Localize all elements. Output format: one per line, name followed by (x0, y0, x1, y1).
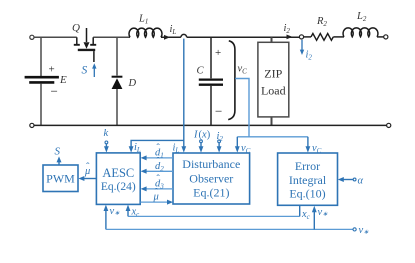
bracket vC (228, 41, 235, 120)
ZIP load box (258, 42, 289, 117)
wire R2 to L2 (333, 36, 344, 38)
node alpha terminal (353, 178, 356, 181)
svg-text:D: D (128, 78, 137, 89)
svg-text:−: − (215, 104, 222, 119)
wire ZIP top stub (271, 37, 273, 42)
svg-text:I: I (193, 130, 198, 141)
block PWM (43, 165, 78, 192)
node i2 terminal (218, 140, 221, 143)
svg-text:α: α (358, 176, 364, 187)
arrow S out of PWM (58, 160, 60, 165)
svg-text:+: + (49, 64, 55, 76)
svg-text:Q: Q (72, 22, 80, 34)
svg-text:ˆ: ˆ (86, 162, 90, 173)
block AESC (96, 153, 140, 205)
svg-text:ˆ: ˆ (156, 157, 160, 168)
svg-text:k: k (104, 128, 109, 139)
svg-text:AESC: AESC (102, 166, 134, 180)
transistor Q leads (76, 37, 78, 44)
inductor L2 (343, 28, 378, 37)
inductor L1 (129, 28, 162, 37)
svg-text:E: E (59, 74, 67, 86)
arrow i2 tap (blue) (301, 40, 303, 52)
wire xc from Error Integral (299, 206, 301, 217)
wire vC horizontal (237, 136, 308, 138)
svg-text:C: C (197, 66, 205, 77)
node right top terminal (384, 35, 388, 39)
wire top rail to i2 node (187, 36, 300, 38)
wire top rail left segment (34, 36, 77, 38)
wire L2 to right terminal (377, 36, 384, 38)
node: left top terminal (30, 35, 34, 39)
wire v-star horizontal (106, 228, 353, 230)
block Error Integral (278, 153, 338, 205)
svg-text:ˆ: ˆ (156, 174, 160, 185)
wire alpha into Error Integral (341, 179, 353, 181)
wire vC tap from bracket (blue) (235, 79, 249, 137)
wire d2-hat (144, 170, 173, 172)
arrow i2 into Observer (218, 143, 220, 150)
wire to R2 (304, 36, 311, 38)
node bottom left terminal (30, 123, 34, 127)
battery E plates (25, 76, 59, 79)
svg-text:Load: Load (261, 84, 286, 98)
wire ZIP bottom stub (271, 117, 273, 126)
wire mu-hat to Observer (140, 201, 170, 203)
svg-text:S: S (82, 65, 88, 77)
wire xc horizontal (128, 215, 300, 217)
transistor Q channel bar (78, 49, 95, 51)
arrow k into AESC (105, 144, 107, 150)
diode D (112, 76, 123, 78)
arrow iL into AESC (129, 146, 134, 152)
wire vC drop to Observer (236, 137, 238, 150)
wire capacitor top (210, 37, 212, 78)
svg-text:ZIP: ZIP (264, 67, 282, 81)
svg-text:+: + (215, 47, 221, 59)
wire v-star into AESC (105, 208, 107, 230)
svg-text:−: − (51, 84, 58, 99)
wire diode top (116, 37, 118, 75)
svg-text:ˆ: ˆ (156, 143, 160, 154)
svg-text:Disturbance: Disturbance (182, 157, 240, 171)
transistor Q gate lead (93, 51, 95, 62)
node v-star terminal (353, 228, 356, 231)
wire mu-hat to PWM (82, 178, 97, 180)
wire v-star into Error Integral (313, 209, 315, 230)
capacitor C plates (199, 78, 223, 80)
wire diode bottom (116, 89, 118, 125)
wire vC drop to Error Integral (307, 137, 309, 150)
node I(x) terminal (200, 140, 203, 143)
svg-text:Eq.(21): Eq.(21) (193, 186, 229, 200)
wire bottom rail (34, 124, 386, 126)
svg-text:Integral: Integral (289, 173, 327, 187)
arrow I(x) into Observer (200, 143, 202, 150)
svg-text:): ) (207, 130, 211, 141)
transistor Q contact bars (74, 44, 96, 46)
wire iL branch to AESC (131, 140, 184, 149)
arrow S gate (blue) (93, 67, 95, 77)
wire top rail mid segment (93, 36, 130, 38)
node bottom right terminal (387, 123, 391, 127)
arrow i2 on wire (287, 35, 293, 40)
arrow iL into Observer (181, 146, 186, 152)
transistor Q bulk line with arrow (86, 28, 88, 42)
block Disturbance Observer (173, 153, 250, 204)
svg-text:Eq.(24): Eq.(24) (101, 181, 136, 193)
node k terminal (105, 141, 108, 144)
arrow iL on wire (164, 35, 170, 40)
wire top rail after L1 (161, 36, 181, 38)
svg-text:ˆ: ˆ (155, 187, 159, 198)
wire iL tap vertical (blue) (183, 39, 185, 151)
wire d3-hat (144, 188, 173, 190)
wire capacitor bottom (210, 86, 212, 126)
svg-text:Error: Error (295, 159, 320, 173)
resistor R2 (311, 34, 333, 41)
svg-text:S: S (55, 146, 61, 158)
wire battery top (40, 37, 42, 76)
svg-text:PWM: PWM (46, 171, 75, 185)
svg-text:Observer: Observer (189, 172, 233, 186)
wire xc into AESC (127, 208, 129, 217)
svg-text:Eq.(10): Eq.(10) (289, 186, 325, 200)
node i2 tap (299, 35, 303, 39)
wire hop at iL tap (181, 34, 187, 37)
wire d1-hat (144, 157, 173, 159)
wire battery bottom (40, 84, 42, 126)
